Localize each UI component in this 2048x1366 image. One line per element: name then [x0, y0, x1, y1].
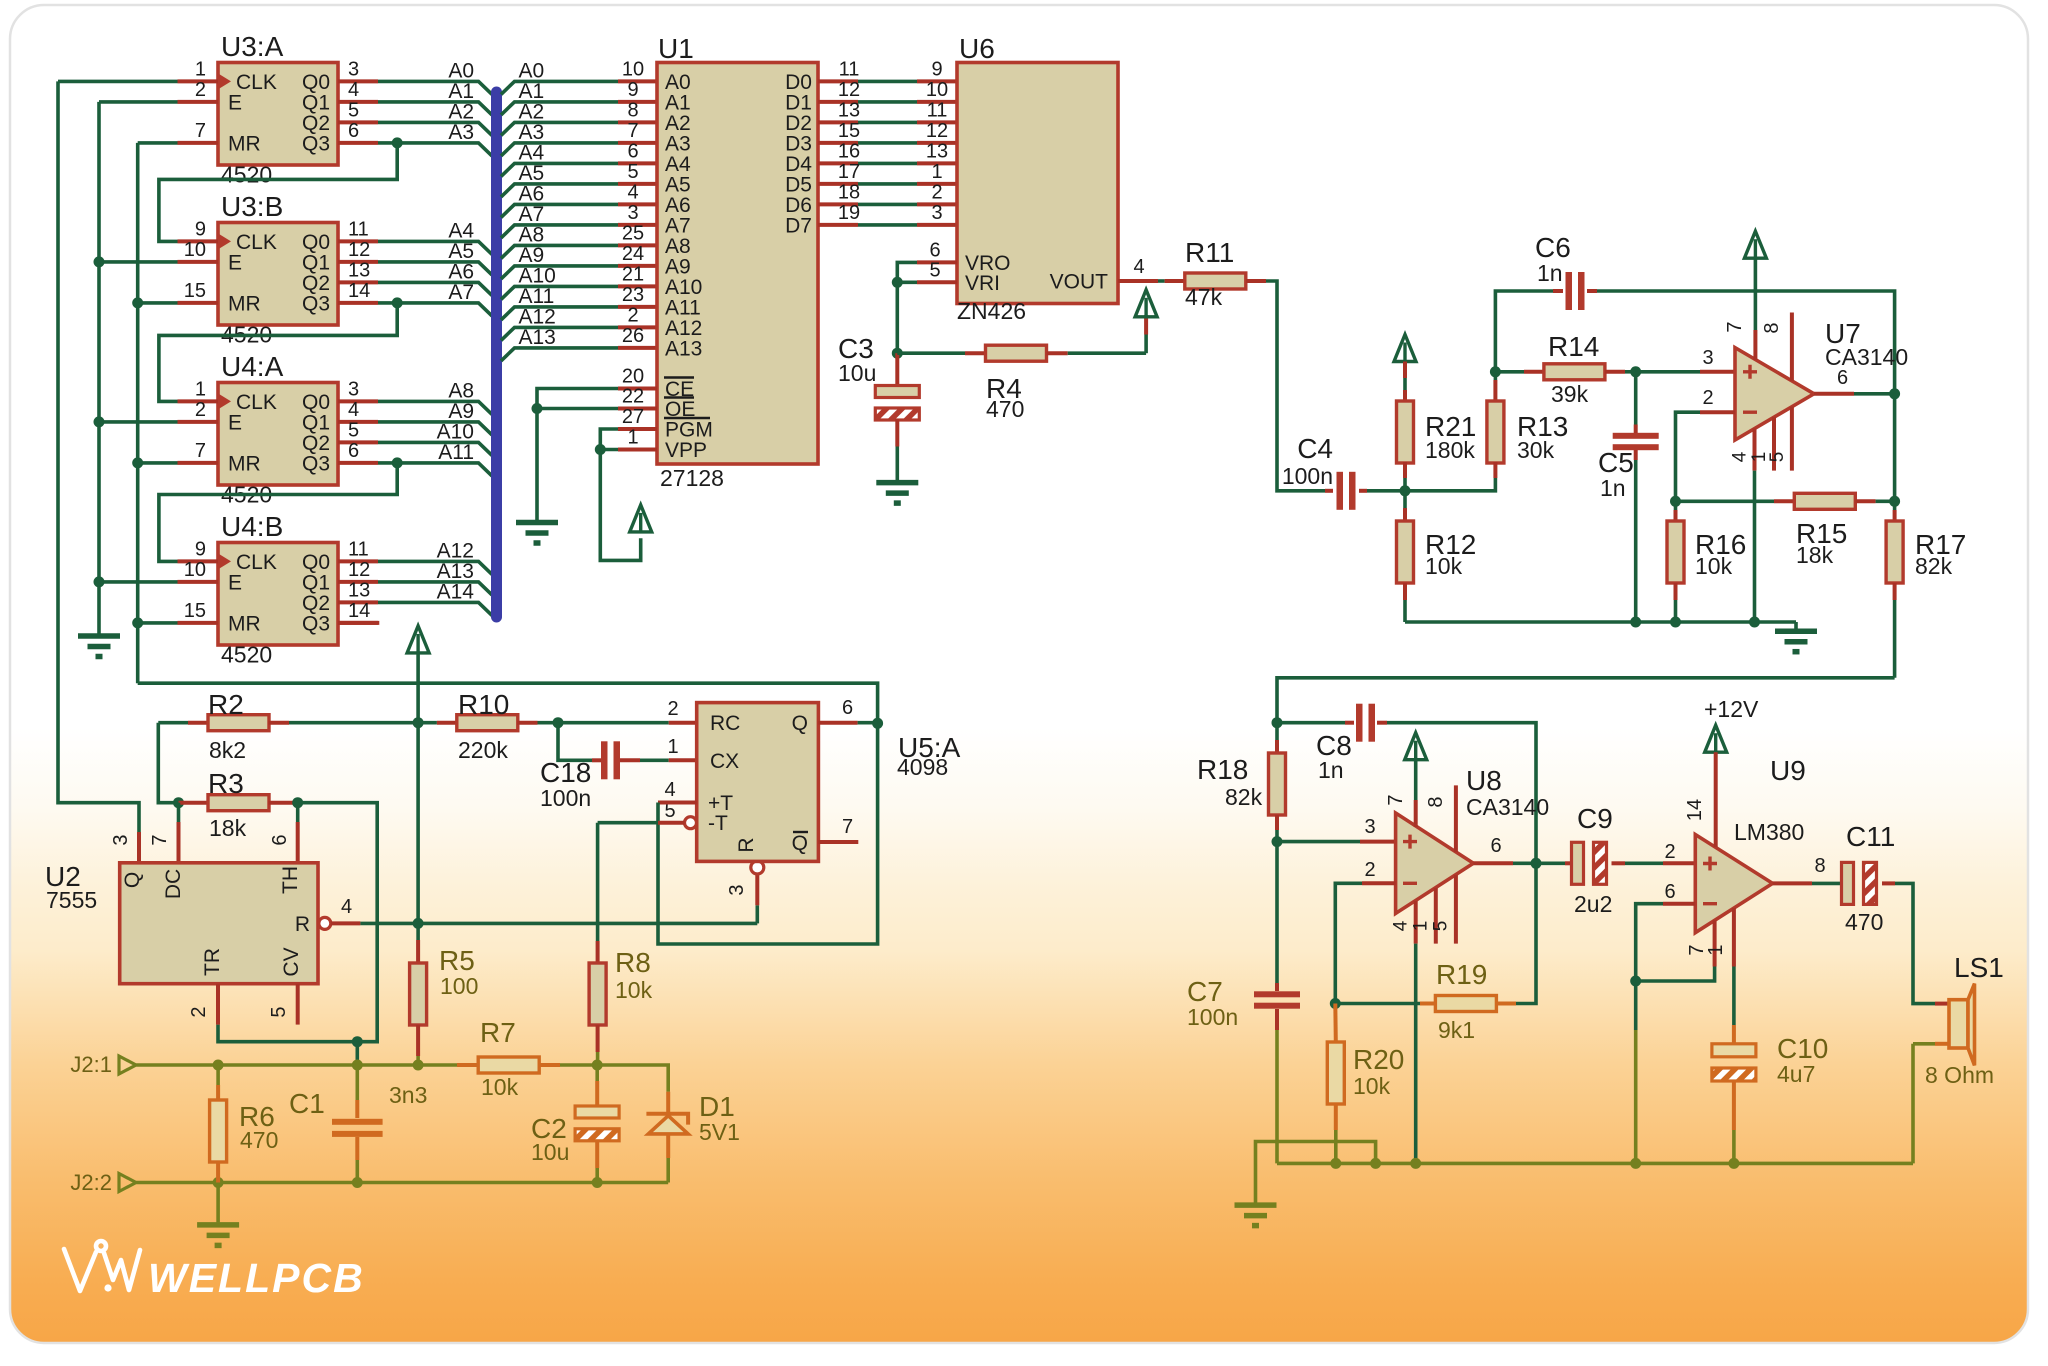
- svg-text:10k: 10k: [615, 977, 653, 1003]
- svg-text:100n: 100n: [540, 785, 591, 811]
- svg-text:9: 9: [931, 58, 942, 80]
- svg-text:7: 7: [1724, 321, 1746, 332]
- counter U4:B pin 11 stub: [338, 559, 378, 563]
- svg-text:5: 5: [1431, 921, 1452, 932]
- svg-text:2: 2: [1702, 387, 1713, 409]
- timer U2 7555 box: [120, 863, 318, 984]
- wire D2 U1 to U6: [818, 120, 858, 124]
- U8 pin 2 wire: [1362, 881, 1396, 885]
- svg-text:15: 15: [184, 600, 206, 622]
- svg-text:7: 7: [842, 816, 853, 838]
- svg-text:3: 3: [110, 834, 132, 845]
- svg-text:6: 6: [1490, 835, 1501, 857]
- svg-text:2: 2: [188, 1006, 210, 1017]
- counter U4:A pin 6 stub: [338, 461, 378, 465]
- svg-text:6: 6: [1664, 881, 1675, 903]
- resistor R16 10k: [1674, 501, 1678, 510]
- svg-text:7555: 7555: [46, 887, 97, 913]
- U7 pin 8 stub: [1790, 313, 1794, 382]
- svg-text:10u: 10u: [531, 1139, 569, 1165]
- counter U3:B pin 12 stub: [338, 260, 378, 264]
- svg-text:15: 15: [184, 280, 206, 302]
- svg-text:A13: A13: [519, 326, 556, 349]
- svg-text:82k: 82k: [1225, 784, 1263, 810]
- counter U4:A clock chevron: [218, 393, 231, 409]
- wire TH net to C1 junction: [355, 1042, 359, 1065]
- counter U3:B pin 9 CLK stub: [178, 239, 219, 243]
- svg-text:1n: 1n: [1318, 757, 1344, 783]
- power arrow main +V: [407, 626, 429, 653]
- svg-text:MR: MR: [228, 452, 261, 475]
- svg-text:1: 1: [931, 161, 942, 183]
- resistor R18 82k: [1275, 723, 1279, 740]
- wire R2 left down to R3: [158, 723, 178, 803]
- svg-text:TH: TH: [279, 866, 302, 894]
- svg-text:MR: MR: [228, 292, 261, 315]
- wire counter output A11 to bus: [378, 463, 492, 476]
- wire J2:1 row to D1: [597, 1065, 668, 1092]
- wire counter output A10 to bus: [378, 442, 492, 455]
- svg-text:3: 3: [726, 884, 748, 895]
- J2:2 input arrow: [119, 1174, 136, 1192]
- svg-text:R8: R8: [615, 947, 651, 978]
- svg-text:2: 2: [195, 79, 206, 101]
- counter U4:A pin 7 MR stub: [178, 461, 219, 465]
- counter U3:B pin 10 E stub: [178, 260, 219, 264]
- wire U1 CE/OE to ground: [537, 389, 618, 521]
- U5 Q pin 6 output: [818, 721, 857, 725]
- svg-text:4: 4: [1391, 920, 1412, 931]
- svg-text:10: 10: [926, 79, 948, 101]
- WELLPCB logo mark: [64, 1241, 140, 1292]
- wire E branch: [99, 580, 178, 584]
- wire counter output A4 to bus: [378, 241, 492, 254]
- wire +V vertical: [416, 653, 420, 723]
- wire D0 U1 to U6: [818, 79, 858, 83]
- svg-text:DC: DC: [162, 869, 185, 899]
- wire D3 U1 to U6: [818, 141, 858, 145]
- wire R11 to C4: [1266, 281, 1325, 491]
- svg-text:10k: 10k: [1353, 1073, 1391, 1099]
- svg-text:6: 6: [348, 440, 359, 462]
- svg-text:4: 4: [348, 79, 359, 101]
- wire E net vertical: [97, 102, 101, 634]
- svg-text:5: 5: [348, 99, 359, 121]
- capacitor C11 470 polarized: [1840, 881, 1848, 885]
- svg-text:14: 14: [348, 280, 370, 302]
- svg-text:A14: A14: [437, 580, 475, 603]
- wire U9 pin 7 loop: [1636, 967, 1715, 982]
- svg-text:1: 1: [1705, 944, 1727, 955]
- svg-text:LM380: LM380: [1734, 819, 1804, 845]
- svg-text:U3:B: U3:B: [221, 191, 283, 222]
- svg-text:4u7: 4u7: [1777, 1061, 1815, 1087]
- svg-text:27128: 27128: [660, 465, 724, 491]
- svg-text:WELLPCB: WELLPCB: [148, 1255, 365, 1301]
- wire bus to U1 A5: [501, 184, 618, 197]
- ground J2:2: [216, 1183, 220, 1223]
- counter U3:A pin 6 stub: [338, 141, 378, 145]
- svg-text:R18: R18: [1197, 754, 1248, 785]
- svg-text:11: 11: [839, 58, 860, 80]
- resistor R17 82k: [1893, 394, 1897, 502]
- wire counter output A6 to bus: [378, 282, 492, 295]
- svg-text:25: 25: [622, 222, 644, 244]
- svg-text:8: 8: [1761, 322, 1783, 333]
- svg-text:4520: 4520: [221, 642, 272, 668]
- svg-text:19: 19: [838, 202, 860, 224]
- svg-text:R2: R2: [208, 689, 244, 720]
- wire counter output A1 to bus: [378, 102, 492, 115]
- wire bus to U1 A4: [501, 163, 618, 176]
- wire bus to U1 A0: [501, 81, 618, 94]
- svg-text:4: 4: [1133, 256, 1144, 278]
- svg-text:3: 3: [348, 58, 359, 80]
- speaker LS1 8 Ohm: [1949, 1000, 1968, 1048]
- wire counter output A7 to bus: [378, 303, 492, 316]
- svg-text:C18: C18: [540, 757, 591, 788]
- wire MR branch: [138, 301, 178, 305]
- U6 VOUT pin 4 stub: [1118, 279, 1158, 283]
- U2 R pin 4 bubble and wire: [319, 917, 331, 929]
- svg-text:15: 15: [838, 120, 860, 142]
- svg-text:2: 2: [931, 181, 942, 203]
- svg-text:5: 5: [348, 419, 359, 441]
- wire ground rail A to ground: [1256, 1142, 1376, 1203]
- resistor R7 10k: [457, 1063, 477, 1067]
- counter U4:B 4520 box: [218, 543, 338, 646]
- svg-text:18k: 18k: [209, 815, 247, 841]
- svg-text:C4: C4: [1297, 433, 1333, 464]
- U1 pin 4 stub: [618, 202, 657, 206]
- wire U7 pin 4 to rail: [1753, 471, 1757, 622]
- U1 pin 21 stub: [618, 284, 657, 288]
- U1 pin 20 stub: [618, 387, 657, 391]
- capacitor C9 2u2 polarized: [1536, 861, 1565, 865]
- svg-text:13: 13: [838, 99, 860, 121]
- svg-text:7: 7: [195, 440, 206, 462]
- svg-text:5: 5: [268, 1006, 290, 1017]
- svg-text:C5: C5: [1598, 447, 1634, 478]
- wire MR net to U3:A pin 7: [138, 141, 178, 145]
- svg-text:14: 14: [1684, 799, 1706, 821]
- wire counter output A14 to bus: [378, 602, 492, 615]
- U1 pin 2 stub: [618, 325, 657, 329]
- resistor R20 10k: [1333, 1004, 1338, 1043]
- svg-text:12: 12: [838, 79, 860, 101]
- svg-text:C6: C6: [1535, 232, 1571, 263]
- wire bus to U1 A2: [501, 122, 618, 135]
- svg-text:A11: A11: [438, 441, 474, 464]
- wire CLK net vertical (U3:A pin1 to U2 Q): [58, 81, 139, 832]
- U7 pin 6 output wire: [1814, 392, 1854, 396]
- EPROM U1 27128 box: [657, 63, 818, 465]
- wire MR net vertical: [136, 143, 140, 683]
- svg-text:CV: CV: [280, 947, 303, 976]
- U5 -T pin 5 bubble: [685, 817, 697, 829]
- svg-text:Q3: Q3: [302, 292, 330, 315]
- U1 pin 7 stub: [618, 141, 657, 145]
- svg-text:18: 18: [838, 181, 860, 203]
- svg-text:3: 3: [627, 202, 638, 224]
- svg-text:9k1: 9k1: [1438, 1017, 1475, 1043]
- svg-text:9: 9: [627, 79, 638, 101]
- capacitor C5 1n: [1634, 372, 1638, 425]
- U7 pin 2 wire: [1700, 410, 1735, 414]
- capacitor C2 10u electrolytic: [595, 1065, 599, 1081]
- svg-text:39k: 39k: [1551, 381, 1589, 407]
- U9 pins 7 1 stubs: [1713, 920, 1717, 966]
- resistor R10 220k: [418, 721, 437, 725]
- svg-text:82k: 82k: [1915, 553, 1953, 579]
- svg-text:12: 12: [348, 239, 370, 261]
- wire R4 right to power arrow: [1144, 335, 1148, 354]
- svg-text:R19: R19: [1436, 959, 1487, 990]
- svg-text:R3: R3: [208, 768, 244, 799]
- capacitor C1 3n3: [355, 1065, 359, 1100]
- svg-text:Q3: Q3: [302, 452, 330, 475]
- svg-text:3: 3: [348, 378, 359, 400]
- svg-text:10k: 10k: [481, 1074, 519, 1100]
- ground filter rail: [1794, 622, 1798, 629]
- wire bus to U1 A6: [501, 204, 618, 217]
- counter U3:A clock chevron: [218, 73, 231, 89]
- wire counter output A9 to bus: [378, 422, 492, 435]
- wire cascade Q3 to next CLK: [159, 143, 397, 242]
- counter U3:B clock chevron: [218, 233, 231, 249]
- svg-text:10: 10: [184, 239, 206, 261]
- wire MR branch: [138, 621, 178, 625]
- svg-text:R5: R5: [439, 945, 475, 976]
- power arrow U1 VPP: [630, 505, 652, 532]
- counter U3:B pin 14 stub: [338, 301, 378, 305]
- counter U3:A 4520 box: [218, 63, 338, 166]
- svg-text:D1: D1: [699, 1091, 735, 1122]
- wire MR net horizontal row: [138, 683, 878, 723]
- wire bus to U1 A10: [501, 286, 618, 299]
- wire bus to U1 A3: [501, 143, 618, 156]
- counter U3:A pin 4 stub: [338, 100, 378, 104]
- wire bus to U1 A8: [501, 245, 618, 258]
- wire VRO/VRI junction: [897, 262, 917, 353]
- capacitor C8 1n: [1277, 721, 1345, 725]
- wire counter output A5 to bus: [378, 262, 492, 275]
- svg-text:ZN426: ZN426: [957, 298, 1026, 324]
- svg-text:U9: U9: [1770, 755, 1806, 786]
- svg-text:20: 20: [622, 366, 644, 388]
- svg-text:220k: 220k: [458, 737, 508, 763]
- counter U4:B clock chevron: [218, 553, 231, 569]
- svg-text:E: E: [228, 251, 242, 274]
- ground U1 CE/OE: [516, 520, 558, 526]
- wire R18 to U8 pin 3: [1277, 840, 1360, 844]
- svg-text:5: 5: [1767, 452, 1788, 463]
- U1 pin 24 stub: [618, 264, 657, 268]
- svg-text:CLK: CLK: [236, 551, 277, 574]
- svg-text:RC: RC: [710, 712, 740, 735]
- svg-text:8 Ohm: 8 Ohm: [1925, 1062, 1994, 1088]
- wire CLK net horizontal to U3:A pin 1: [58, 80, 178, 84]
- capacitor C6 1n: [1495, 291, 1553, 372]
- DAC U6 ZN426 box: [957, 63, 1118, 304]
- svg-text:R14: R14: [1548, 331, 1599, 362]
- counter U4:B pin 15 MR stub: [178, 621, 219, 625]
- wire counter output A2 to bus: [378, 122, 492, 135]
- svg-text:10u: 10u: [838, 360, 876, 386]
- op-amp U8 CA3140: [1396, 813, 1474, 913]
- C18 junction wire: [558, 723, 592, 761]
- wire D7 U1 to U6: [818, 223, 858, 227]
- counter U4:A pin 4 stub: [338, 420, 378, 424]
- counter U4:A pin 2 E stub: [178, 420, 219, 424]
- svg-text:9: 9: [195, 538, 206, 560]
- resistor R3 18k: [173, 797, 184, 808]
- U2 TH pin stub: [296, 803, 300, 822]
- svg-text:6: 6: [269, 834, 291, 845]
- counter U3:A pin 3 stub: [338, 79, 378, 83]
- svg-text:8k2: 8k2: [209, 737, 246, 763]
- counter U4:B pin 10 E stub: [178, 580, 219, 584]
- svg-text:470: 470: [240, 1127, 278, 1153]
- svg-text:U6: U6: [959, 33, 995, 64]
- zener diode D1 5V1: [666, 1092, 670, 1113]
- capacitor C3 10u electrolytic: [895, 353, 899, 385]
- capacitor C10 4u7 electrolytic: [1732, 967, 1736, 1026]
- counter U4:A pin 3 stub: [338, 399, 378, 403]
- svg-text:J2:1: J2:1: [70, 1052, 112, 1077]
- svg-text:14: 14: [348, 600, 370, 622]
- U1 pin 23 stub: [618, 305, 657, 309]
- resistor R14 39k: [1490, 366, 1501, 377]
- wire U2 Q pin stub: [137, 832, 141, 863]
- U9 pin 6 wire: [1663, 902, 1695, 906]
- resistor R21 180k: [1403, 362, 1407, 379]
- resistor R6 470: [216, 1065, 220, 1085]
- svg-text:R: R: [735, 837, 758, 852]
- svg-text:Q3: Q3: [302, 612, 330, 635]
- svg-text:470: 470: [986, 396, 1024, 422]
- U2 CV pin stub: [296, 984, 300, 1025]
- counter U3:A pin 2 E stub: [178, 100, 219, 104]
- svg-text:Q3: Q3: [302, 132, 330, 155]
- wire D1 to J2:2 row: [136, 1181, 668, 1185]
- svg-text:8: 8: [1425, 796, 1447, 807]
- address bus (blue): [491, 92, 502, 617]
- svg-text:U4:A: U4:A: [221, 351, 284, 382]
- wire U1 OE branch: [537, 407, 618, 411]
- counter U3:B pin 13 stub: [338, 280, 378, 284]
- counter U4:B pin 9 CLK stub: [178, 559, 219, 563]
- svg-text:7: 7: [149, 834, 171, 845]
- junction C8/R18: [1272, 717, 1283, 728]
- resistor R8 10k: [596, 941, 600, 963]
- svg-text:U8: U8: [1466, 765, 1502, 796]
- resistor R4 470: [897, 351, 965, 355]
- svg-text:1: 1: [1411, 921, 1432, 932]
- svg-text:27: 27: [622, 406, 644, 428]
- wire bus to U1 A12: [501, 327, 618, 340]
- svg-text:U4:B: U4:B: [221, 511, 283, 542]
- J2:1 input arrow: [119, 1056, 136, 1074]
- svg-text:21: 21: [622, 263, 644, 285]
- wire LS1 bottom to rail: [1935, 1042, 1949, 1046]
- op-amp U7 CA3140: [1735, 348, 1814, 440]
- ground C3: [876, 480, 918, 486]
- svg-text:4: 4: [664, 779, 675, 801]
- U8 pin 6 output: [1473, 861, 1513, 865]
- svg-text:U3:A: U3:A: [221, 31, 284, 62]
- svg-text:6: 6: [842, 697, 853, 719]
- svg-text:4: 4: [627, 181, 638, 203]
- counter U3:B 4520 box: [218, 223, 338, 326]
- U8 pins 4 1 5 stubs: [1414, 901, 1418, 944]
- svg-text:470: 470: [1845, 909, 1883, 935]
- svg-text:+12V: +12V: [1704, 696, 1759, 722]
- U6 pin 5 VRI stub: [917, 280, 957, 284]
- wire U5 +T return loop: [658, 723, 878, 944]
- svg-text:13: 13: [348, 259, 370, 281]
- resistor R15 18k: [1670, 496, 1681, 507]
- svg-text:6: 6: [348, 120, 359, 142]
- svg-text:10: 10: [184, 559, 206, 581]
- counter U3:A pin 1 CLK stub: [178, 79, 219, 83]
- U2 DC pin stub: [177, 803, 181, 822]
- wire ground rail B: [1277, 1162, 1913, 1166]
- counter U3:B pin 15 MR stub: [178, 301, 219, 305]
- svg-text:R20: R20: [1353, 1044, 1404, 1075]
- svg-text:10: 10: [622, 58, 644, 80]
- svg-text:4098: 4098: [897, 754, 948, 780]
- wire D1 U1 to U6: [818, 100, 858, 104]
- svg-text:4: 4: [1730, 451, 1751, 462]
- resistor R19 9k1: [1335, 1002, 1420, 1006]
- svg-text:13: 13: [348, 579, 370, 601]
- svg-text:5V1: 5V1: [699, 1119, 740, 1145]
- svg-text:LS1: LS1: [1954, 952, 2004, 983]
- wire E net to U3:A pin 2: [99, 100, 178, 104]
- svg-text:E: E: [228, 91, 242, 114]
- resistor R11 47k: [1158, 279, 1165, 283]
- IC U5:A 4098 box: [697, 703, 819, 862]
- svg-text:11: 11: [348, 218, 369, 240]
- wire R net up to U5 pin 3: [755, 905, 759, 923]
- svg-text:100n: 100n: [1282, 463, 1333, 489]
- counter U3:A pin 5 stub: [338, 120, 378, 124]
- svg-text:22: 22: [622, 386, 644, 408]
- svg-text:1: 1: [627, 427, 638, 449]
- U1 pin 5 stub: [618, 182, 657, 186]
- svg-text:47k: 47k: [1185, 284, 1223, 310]
- svg-text:E: E: [228, 571, 242, 594]
- svg-text:VPP: VPP: [665, 439, 707, 462]
- svg-text:Q: Q: [792, 712, 808, 735]
- svg-text:1n: 1n: [1600, 475, 1626, 501]
- wire bottom rail of filter: [1405, 620, 1796, 624]
- svg-text:2: 2: [1664, 841, 1675, 863]
- U9 pin 8 output: [1773, 881, 1812, 885]
- svg-text:C10: C10: [1777, 1033, 1828, 1064]
- svg-text:10k: 10k: [1695, 553, 1733, 579]
- resistor R13 30k: [1494, 372, 1498, 380]
- svg-text:R10: R10: [458, 689, 509, 720]
- svg-text:13: 13: [926, 140, 948, 162]
- svg-text:5: 5: [627, 161, 638, 183]
- wire cascade Q3 to next CLK: [159, 303, 397, 402]
- svg-text:6: 6: [627, 140, 638, 162]
- svg-text:VOUT: VOUT: [1050, 271, 1109, 294]
- svg-text:Q: Q: [792, 832, 808, 855]
- counter U4:B pin 14 unconnected stub: [338, 621, 379, 625]
